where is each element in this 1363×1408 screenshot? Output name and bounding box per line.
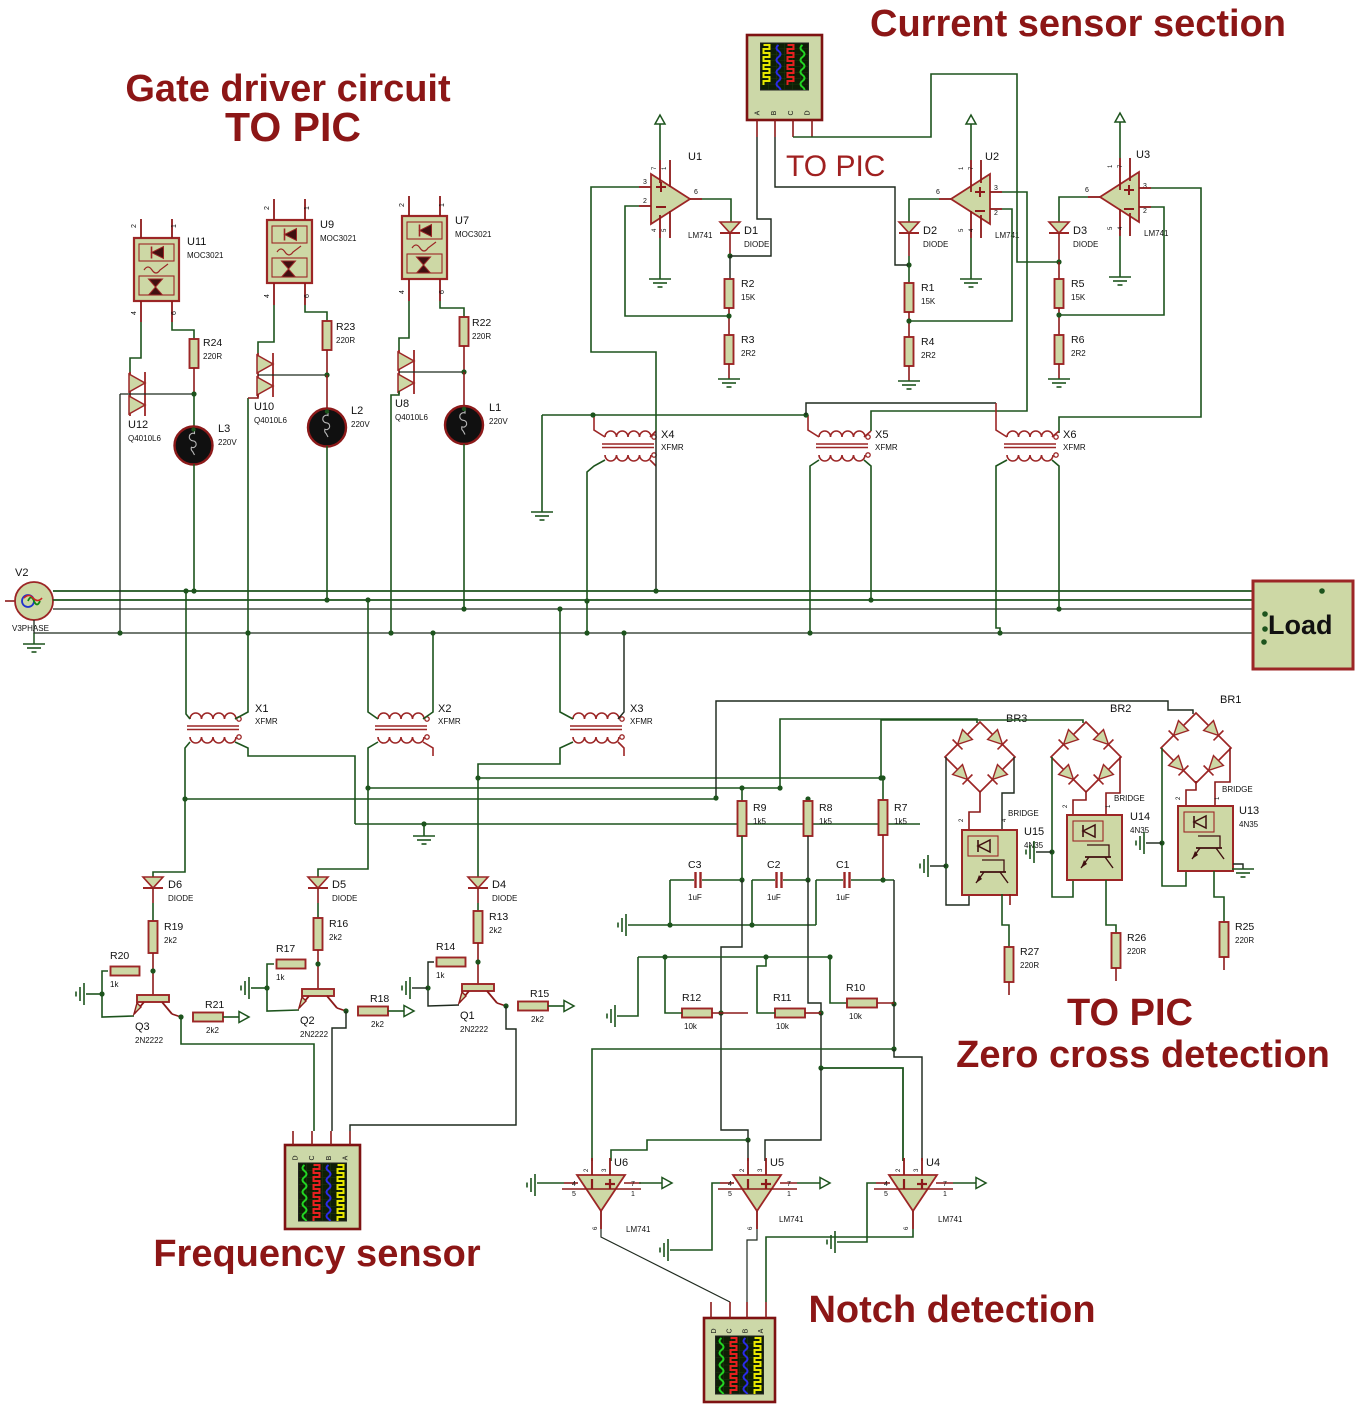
node X4 sec phase B [584, 598, 589, 603]
wire X5 primary left [808, 415, 819, 437]
node C1/R7 [880, 877, 885, 882]
oscilloscope frequency sensor [285, 1145, 360, 1229]
svg-text:R14: R14 [436, 941, 455, 953]
transformer X1 XFMR [190, 713, 236, 719]
svg-text:LM741: LM741 [938, 1215, 963, 1224]
svg-text:BR1: BR1 [1220, 694, 1241, 706]
svg-text:L2: L2 [351, 405, 363, 417]
ground Q2 [241, 977, 249, 999]
ground R4 [908, 366, 910, 381]
svg-text:2: 2 [399, 203, 406, 207]
diode D2 [909, 199, 939, 222]
wire Q3 to scope [181, 1017, 314, 1131]
svg-text:X3: X3 [630, 703, 643, 715]
node R11 gnd [763, 954, 768, 959]
svg-text:C1: C1 [836, 859, 850, 871]
svg-text:U12: U12 [128, 419, 148, 431]
svg-text:4: 4 [131, 311, 138, 315]
node X6 phase C [1056, 606, 1061, 611]
node U8/R22/L1 [461, 369, 466, 374]
wire BR2 left to U14 E [1052, 757, 1073, 897]
wire X1 net to BR1 riser [185, 798, 716, 800]
svg-text:1k5: 1k5 [894, 817, 907, 826]
wire U15 C to R27 [1002, 894, 1009, 947]
wire U8 to neutral [391, 391, 399, 633]
optocoupler U7 MOC3021 [402, 216, 447, 279]
wire L3 to phase A [193, 464, 195, 591]
wire U6 pin6 to scope [601, 1229, 730, 1302]
node X2 net [365, 785, 370, 790]
wire BR1 left to U13 E [1162, 748, 1186, 886]
transistor Q3 2N2222 [137, 995, 169, 1002]
svg-text:15K: 15K [1071, 293, 1086, 302]
node R16/R17/Q2 [315, 961, 320, 966]
node U8 neutral [388, 630, 393, 635]
svg-text:3: 3 [643, 179, 647, 186]
svg-text:U9: U9 [320, 219, 334, 231]
wire R11 left [757, 957, 775, 1013]
wire C3 left [670, 879, 694, 881]
resistor R16 2k2 [317, 903, 319, 918]
svg-text:2N2222: 2N2222 [135, 1036, 164, 1045]
resistor R18 2k2 [358, 1007, 388, 1016]
wire U5 output [797, 1182, 820, 1184]
wire C1 left [816, 879, 843, 881]
svg-text:MOC3021: MOC3021 [455, 230, 492, 239]
svg-text:1k5: 1k5 [819, 817, 832, 826]
svg-text:R17: R17 [276, 943, 295, 955]
transformer X3 XFMR [573, 713, 619, 719]
node BR3 left [943, 863, 948, 868]
svg-text:4: 4 [264, 294, 271, 298]
svg-text:A: A [343, 1155, 350, 1160]
wire X1 primary left to phase A [186, 591, 190, 719]
wire scope C,D to D3 node [793, 74, 1059, 262]
wire U3 pin3 to X6 [1059, 188, 1201, 433]
pin A freq scope [349, 1131, 351, 1145]
diode D5 [308, 877, 328, 888]
resistor R7 1k5 [882, 776, 884, 800]
ground U1 [659, 238, 661, 279]
svg-text:XFMR: XFMR [438, 717, 461, 726]
wire X4 right leads [650, 431, 656, 437]
svg-text:Current sensor section: Current sensor section [870, 3, 1286, 45]
wire R12 right [712, 1012, 748, 1014]
svg-text:R4: R4 [921, 336, 935, 348]
svg-text:6: 6 [1085, 187, 1089, 194]
svg-text:U2: U2 [985, 151, 999, 163]
wire rail riser to X6 link [806, 403, 996, 415]
wire X5 secondary right to phase B [864, 460, 871, 600]
svg-text:R2: R2 [741, 278, 755, 290]
node Q2 emitter gnd [264, 985, 269, 990]
resistor R6 2R2 [1055, 335, 1064, 364]
wire C3 to rail [669, 880, 671, 925]
svg-text:R9: R9 [753, 802, 767, 814]
svg-text:D: D [711, 1328, 718, 1333]
wire X2 primary right to neutral [423, 633, 433, 719]
pin 6 U9 [304, 283, 306, 305]
svg-text:1uF: 1uF [836, 893, 850, 902]
svg-text:1k5: 1k5 [753, 817, 766, 826]
svg-text:R26: R26 [1127, 932, 1146, 944]
pin 2 stub U2 [990, 208, 1002, 210]
node U14 emitter [1049, 849, 1054, 854]
resistor R20 1k [111, 967, 140, 976]
svg-text:TO PIC: TO PIC [1067, 992, 1193, 1034]
svg-text:U13: U13 [1239, 805, 1259, 817]
ground line 824 [423, 824, 425, 836]
wire BR1 bottom to U13 K [1186, 781, 1196, 806]
wire U4 pin6 to scope [766, 1229, 913, 1302]
resistor R24 220R [172, 322, 194, 339]
wire Q2 collector [337, 1008, 346, 1011]
svg-text:U1: U1 [688, 151, 702, 163]
svg-text:Q2: Q2 [300, 1015, 315, 1027]
bridge rectifier BR2 [1051, 722, 1121, 792]
svg-text:6: 6 [694, 189, 698, 196]
wire R21 out [223, 1016, 239, 1018]
pin A scope [756, 120, 758, 137]
wire bus phase A [53, 590, 1253, 592]
svg-text:U7: U7 [455, 215, 469, 227]
wire X5 primary right [864, 431, 871, 437]
svg-text:C2: C2 [767, 859, 781, 871]
svg-text:R25: R25 [1235, 921, 1254, 933]
wire U5 pin6 to scope [747, 1229, 757, 1302]
ground V2 [33, 633, 35, 644]
node U10/R23/L2 [324, 372, 329, 377]
svg-text:DIODE: DIODE [1073, 240, 1098, 249]
svg-text:R16: R16 [329, 918, 348, 930]
capacitor C2 1uF [775, 872, 777, 888]
pin 3 stub U1 [639, 186, 651, 188]
diode D4 [468, 877, 488, 888]
optocoupler U14 4N35 [1067, 815, 1122, 880]
wire U8 MT to lamp node [399, 371, 464, 373]
node D3/R5 [1056, 259, 1061, 264]
node U12/R24/L3 [191, 391, 196, 396]
svg-text:D1: D1 [744, 225, 758, 237]
svg-text:R12: R12 [682, 992, 701, 1004]
wire X6 primary right [1052, 431, 1059, 437]
wire X1 secondary right [235, 742, 355, 824]
transistor Q2 2N2222 [302, 989, 334, 996]
wire BR2 bottom to U14 K [1073, 791, 1086, 815]
node net C R10 [891, 1001, 896, 1006]
svg-text:R27: R27 [1020, 946, 1039, 958]
svg-text:XFMR: XFMR [630, 717, 653, 726]
wire X6 secondary right to phase C [1052, 460, 1059, 609]
wire X2 secondary right [423, 742, 433, 756]
svg-text:XFMR: XFMR [875, 443, 898, 452]
svg-text:220R: 220R [1235, 936, 1254, 945]
resistor R1 15K [908, 256, 910, 283]
pin 1 U9 [304, 199, 306, 220]
pin 2 U9 [273, 199, 275, 220]
wire L2 to phase B [326, 446, 328, 600]
svg-text:1k: 1k [110, 980, 119, 989]
pin 6 stub U1 [690, 198, 702, 200]
wire X4 secondary left to neutral [587, 460, 605, 633]
oscilloscope current sensor [747, 35, 822, 120]
wire BR3 bottom to U15 K [969, 791, 980, 830]
svg-text:R5: R5 [1071, 278, 1085, 290]
node D1/R2 [727, 253, 732, 258]
svg-text:2: 2 [1143, 208, 1147, 215]
svg-text:C: C [309, 1155, 316, 1160]
svg-text:7: 7 [787, 1181, 791, 1188]
pin 1 U11 [171, 219, 173, 238]
wire BR3 right to U15 A [1002, 757, 1014, 830]
node R19/R20/Q3 [150, 968, 155, 973]
svg-text:R19: R19 [164, 921, 183, 933]
svg-text:1: 1 [943, 1191, 947, 1198]
wire Q1 to scope [350, 1006, 516, 1131]
svg-text:C: C [727, 1328, 734, 1333]
node C3 rail [667, 922, 672, 927]
ground U6 pin4 [527, 1174, 535, 1196]
pin 1 U7 [439, 196, 441, 216]
svg-text:D: D [805, 110, 812, 115]
svg-text:Q4010L6: Q4010L6 [395, 413, 428, 422]
wire X1 secondary left to D6 [153, 742, 190, 877]
svg-text:1: 1 [304, 206, 311, 210]
wire C1 right [851, 879, 894, 881]
wire Q2 to scope [332, 1011, 346, 1131]
wire C2 right [783, 879, 808, 881]
node Q2 collector [343, 1008, 348, 1013]
svg-text:MOC3021: MOC3021 [187, 251, 224, 260]
pin B scope [774, 120, 776, 137]
svg-text:C: C [788, 110, 795, 115]
pin 3 stub U2 [990, 191, 1002, 193]
wire U1 pin3 to X4 [591, 187, 656, 431]
node U12 neutral [117, 630, 122, 635]
svg-text:1: 1 [631, 1191, 635, 1198]
wire Q3 collector [172, 1014, 181, 1017]
svg-text:2: 2 [994, 210, 998, 217]
svg-text:U4: U4 [926, 1157, 940, 1169]
pin 2 U7 [408, 196, 410, 216]
op-amp U5 LM741 [733, 1175, 781, 1211]
node X5 phase B [868, 597, 873, 602]
node ground tap 824 [421, 821, 426, 826]
wire BR1 right to U13 A [1215, 748, 1230, 806]
svg-text:R10: R10 [846, 982, 865, 994]
transformer X2 XFMR [378, 713, 424, 719]
svg-text:B: B [771, 110, 778, 115]
svg-text:3: 3 [994, 185, 998, 192]
svg-text:L1: L1 [489, 402, 501, 414]
svg-text:220R: 220R [203, 352, 222, 361]
svg-text:R8: R8 [819, 802, 833, 814]
resistor R26 220R [1112, 933, 1121, 968]
op-amp U1 LM741 [651, 174, 690, 224]
svg-text:Frequency sensor: Frequency sensor [153, 1233, 481, 1275]
pin B notch scope [746, 1302, 748, 1318]
resistor R23 220R [305, 305, 327, 321]
resistor R10 10k [847, 999, 877, 1008]
wire U5 pin3 link [765, 1068, 821, 1161]
svg-text:R24: R24 [203, 337, 222, 349]
wire bus phase C [53, 608, 1253, 610]
svg-text:1uF: 1uF [767, 893, 781, 902]
wire bus phase B [53, 599, 1253, 601]
triac U8 Q4010L6 [399, 301, 409, 353]
svg-text:220R: 220R [472, 332, 491, 341]
svg-text:R23: R23 [336, 321, 355, 333]
wire U13 C to R25 [1214, 871, 1224, 922]
svg-text:R6: R6 [1071, 334, 1085, 346]
wire R20 left [102, 971, 134, 1017]
ground U2 [970, 238, 972, 279]
svg-text:5: 5 [884, 1191, 888, 1198]
svg-text:4: 4 [399, 290, 406, 294]
wire U3 feedback [1059, 207, 1164, 315]
ground U5 pin4 [660, 1239, 668, 1261]
resistor R4 2R2 [905, 337, 914, 366]
node R5/R6 [1056, 312, 1061, 317]
svg-text:DIODE: DIODE [168, 894, 193, 903]
svg-text:DIODE: DIODE [744, 240, 769, 249]
svg-text:6: 6 [304, 294, 311, 298]
pin 4 U7 [408, 279, 410, 301]
svg-text:6: 6 [171, 311, 178, 315]
wire Q1 collector [497, 1003, 506, 1006]
resistor R27 220R [1005, 947, 1014, 982]
svg-text:1k: 1k [276, 973, 285, 982]
svg-text:2R2: 2R2 [1071, 349, 1086, 358]
wire net A riser [721, 880, 742, 1013]
lamp L1 220V [463, 372, 465, 406]
wire U12 to neutral [119, 394, 121, 633]
svg-text:R13: R13 [489, 911, 508, 923]
svg-text:2: 2 [131, 224, 138, 228]
svg-text:DIODE: DIODE [332, 894, 357, 903]
wire C2 to rail [751, 880, 753, 925]
wire BR3 left down [946, 757, 969, 905]
svg-text:220R: 220R [1020, 961, 1039, 970]
wire cap ground rail [670, 924, 816, 926]
wire U2 feedback [909, 209, 1012, 321]
ground U13 emitter [1136, 832, 1144, 854]
node R2/R3 [726, 313, 731, 318]
pin D freq scope [292, 1131, 294, 1145]
wire rail to R10 [830, 957, 848, 1003]
op-amp U3 LM741 [1100, 172, 1139, 222]
svg-text:U6: U6 [614, 1157, 628, 1169]
svg-text:15K: 15K [921, 297, 936, 306]
op-amp U2 LM741 [951, 174, 990, 224]
ground R3 [728, 364, 730, 379]
node X3 phase C [557, 606, 562, 611]
svg-text:U14: U14 [1130, 811, 1150, 823]
ground X4 rail [541, 415, 543, 512]
wire X2 net line [368, 787, 780, 789]
node X5 sec neutral [807, 630, 812, 635]
wire X1 net under R8 [804, 801, 813, 836]
svg-text:4: 4 [572, 1181, 576, 1188]
wire R11 right [805, 1012, 821, 1014]
svg-text:D5: D5 [332, 879, 346, 891]
svg-text:D4: D4 [492, 879, 506, 891]
svg-text:BRIDGE: BRIDGE [1222, 785, 1253, 794]
wire R10 right [877, 1002, 894, 1004]
lamp L3 220V [193, 394, 195, 427]
ground Q1 [402, 977, 410, 999]
svg-text:BRIDGE: BRIDGE [1114, 794, 1145, 803]
pin C scope [792, 120, 794, 137]
svg-text:L3: L3 [218, 423, 230, 435]
resistor R12 10k [682, 1009, 712, 1018]
pin A notch scope [765, 1302, 767, 1318]
svg-text:D: D [293, 1155, 300, 1160]
svg-text:2R2: 2R2 [921, 351, 936, 360]
wire R12 left ground [665, 957, 682, 1013]
svg-text:1: 1 [439, 203, 446, 207]
wire ground rail gate [542, 414, 806, 416]
wire X4 secondary right to phase A [655, 431, 657, 591]
wire X6 secondary left to neutral [996, 460, 1007, 633]
bridge rectifier BR1 [1161, 713, 1231, 783]
svg-text:XFMR: XFMR [255, 717, 278, 726]
node L3 phase A [191, 588, 196, 593]
optocoupler U9 MOC3021 [267, 220, 312, 283]
ground U15 emitter [920, 855, 928, 877]
resistor R21 2k2 [193, 1013, 223, 1022]
svg-text:Q4010L6: Q4010L6 [254, 416, 287, 425]
wire U4 output [953, 1182, 976, 1184]
svg-text:TO PIC: TO PIC [786, 150, 885, 183]
transistor Q1 2N2222 [462, 984, 494, 991]
svg-text:2k2: 2k2 [329, 933, 342, 942]
svg-text:Notch detection: Notch detection [808, 1289, 1095, 1331]
svg-text:R11: R11 [773, 992, 792, 1004]
svg-text:7: 7 [631, 1181, 635, 1188]
wire BR1 feed [716, 701, 1193, 798]
pin D scope [811, 120, 813, 137]
wire X4 primary left to ground rail [594, 415, 605, 437]
svg-text:4: 4 [884, 1181, 888, 1188]
svg-text:1uF: 1uF [688, 893, 702, 902]
svg-text:5: 5 [728, 1191, 732, 1198]
wire X3 net line [478, 777, 881, 779]
svg-text:BRIDGE: BRIDGE [1008, 809, 1039, 818]
svg-text:R20: R20 [110, 950, 129, 962]
svg-text:DIODE: DIODE [492, 894, 517, 903]
svg-text:10k: 10k [684, 1022, 698, 1031]
wire X1 sec right line [355, 823, 920, 825]
node C2/R8 [805, 877, 810, 882]
transformer X4 XFMR [605, 431, 651, 437]
resistor R17 1k [277, 960, 306, 969]
svg-text:220V: 220V [351, 420, 370, 429]
wire neutral [34, 620, 1253, 633]
svg-text:D2: D2 [923, 225, 937, 237]
source V2 V3PHASE [5, 600, 15, 602]
svg-text:R18: R18 [370, 993, 389, 1005]
svg-text:Q4010L6: Q4010L6 [128, 434, 161, 443]
svg-text:XFMR: XFMR [1063, 443, 1086, 452]
svg-text:U8: U8 [395, 398, 409, 410]
wire X3 primary left to phase C [560, 609, 573, 719]
node R1/R4 [906, 318, 911, 323]
pin 6 U11 [171, 301, 173, 322]
svg-text:MOC3021: MOC3021 [320, 234, 357, 243]
wire U14 C to R26 [1106, 880, 1116, 933]
svg-text:10k: 10k [776, 1022, 790, 1031]
